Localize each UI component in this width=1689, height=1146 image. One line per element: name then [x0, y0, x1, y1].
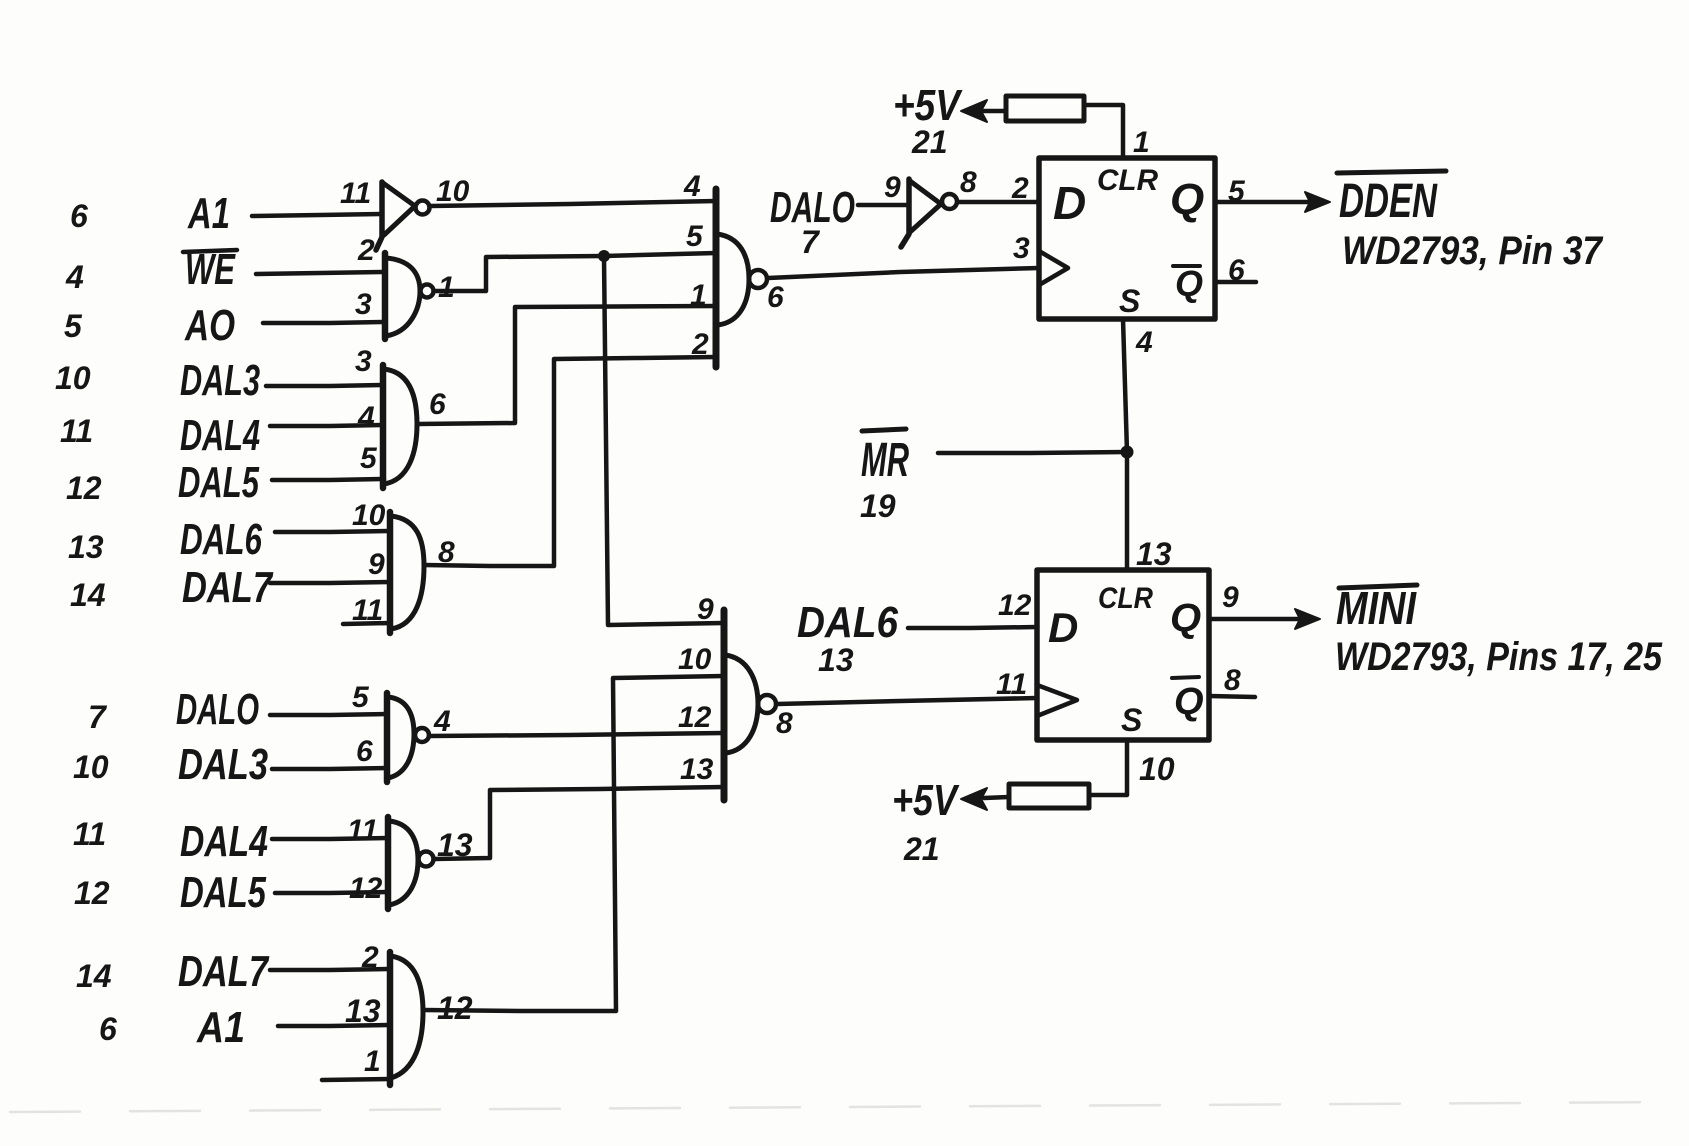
- svg-text:13: 13: [680, 753, 714, 786]
- wire DAL7 input to AND C pin 9: [270, 582, 390, 583]
- svg-text:5: 5: [64, 308, 83, 344]
- wire A1 input to inverter: [252, 214, 381, 216]
- wire DAL3 input to NAND D pin 6: [272, 768, 387, 769]
- svg-text:10: 10: [678, 643, 712, 676]
- inverter (A1, 7404 pin 11 to 10): [376, 182, 430, 250]
- arrowhead +5V upper: [961, 100, 987, 122]
- svg-text:Q: Q: [1175, 263, 1203, 304]
- svg-text:3: 3: [1013, 232, 1030, 265]
- svg-text:10: 10: [73, 749, 109, 785]
- overline DDEN: [1337, 171, 1446, 173]
- svg-text:9: 9: [884, 171, 901, 204]
- wire stub AND C pin 11: [343, 623, 390, 624]
- svg-text:13: 13: [68, 529, 104, 565]
- wire DAL7 input to AND F pin 2: [270, 969, 390, 970]
- svg-text:DAL5: DAL5: [180, 868, 266, 917]
- svg-text:6: 6: [429, 388, 446, 421]
- svg-text:11: 11: [347, 814, 378, 847]
- svg-text:1: 1: [1133, 126, 1150, 159]
- svg-text:DAL7: DAL7: [178, 947, 270, 996]
- svg-text:11: 11: [60, 413, 93, 449]
- svg-text:+5V: +5V: [892, 776, 960, 825]
- AND gate C (DAL6/DAL7, pins 10,9,11 out 8): [390, 512, 424, 633]
- svg-text:DAL3: DAL3: [180, 356, 260, 405]
- svg-text:6: 6: [70, 198, 88, 234]
- wire vertical from junction down to NAND U2 pin 9: [604, 257, 724, 625]
- svg-text:10: 10: [352, 499, 386, 532]
- svg-text:1: 1: [690, 279, 707, 312]
- svg-text:+5V: +5V: [893, 81, 963, 130]
- svg-text:2: 2: [1011, 172, 1029, 205]
- svg-text:9: 9: [697, 593, 714, 626]
- NAND gate E (DAL4/DAL5, pins 11,12 out 13): [388, 817, 434, 909]
- wire A1 input to AND F pin 13: [278, 1025, 390, 1026]
- svg-text:14: 14: [76, 958, 112, 994]
- wire DAL0 input to inverter 2 pin 9: [858, 203, 909, 208]
- svg-text:4: 4: [683, 170, 701, 203]
- svg-text:6: 6: [99, 1011, 117, 1047]
- wire stub AND F pin 1: [322, 1079, 390, 1080]
- svg-text:12: 12: [998, 589, 1032, 622]
- svg-text:2: 2: [357, 234, 375, 267]
- overline FF1 Qbar: [1173, 264, 1200, 268]
- svg-text:CLR: CLR: [1097, 164, 1158, 197]
- flip-flop FF2 (7474 lower) box: [1037, 570, 1209, 740]
- arrowhead MINI: [1295, 609, 1320, 629]
- svg-text:3: 3: [355, 288, 372, 321]
- svg-text:9: 9: [1222, 581, 1239, 614]
- svg-text:8: 8: [438, 536, 455, 569]
- AND gate B (DAL3/DAL4/DAL5, pins 3,4,5 out 6): [383, 365, 417, 488]
- svg-text:21: 21: [911, 124, 948, 160]
- wire NAND A output 1 to NAND U1 pin 5: [434, 253, 716, 291]
- svg-text:Q: Q: [1174, 681, 1204, 723]
- svg-text:DAL6: DAL6: [180, 515, 262, 564]
- svg-text:DAL6: DAL6: [797, 598, 898, 647]
- svg-text:Q: Q: [1170, 596, 1201, 640]
- resistor (pull-up to +5V, lower): [1009, 784, 1089, 808]
- svg-text:13: 13: [437, 827, 473, 863]
- wire FF2 Qbar pin 8 stub: [1209, 696, 1255, 697]
- arrowhead DDEN: [1305, 192, 1330, 212]
- wire resistor to +5V arrow lower: [984, 797, 1009, 798]
- wire DAL0 input to NAND D pin 5: [270, 714, 387, 715]
- wire AND B output 6 to NAND U1 pin 1: [417, 306, 716, 424]
- wire FF2 Q pin 9 to MINI: [1209, 617, 1302, 622]
- wire resistor to +5V arrow: [983, 109, 1006, 114]
- svg-text:WD2793, Pins 17, 25: WD2793, Pins 17, 25: [1335, 635, 1663, 679]
- wire DAL5 input to AND B pin 5: [272, 479, 384, 480]
- svg-text:14: 14: [70, 577, 106, 613]
- overline MR: [862, 429, 906, 431]
- svg-text:Q: Q: [1170, 175, 1204, 224]
- svg-text:11: 11: [340, 177, 371, 210]
- svg-text:A1: A1: [187, 189, 230, 238]
- wire NAND U1 output 6 to FF1 clock pin 3: [768, 268, 1039, 278]
- NAND gate D (DAL0/DAL3, pins 5,6 out 4): [387, 693, 429, 782]
- wire DAL5 input to NAND E pin 12: [275, 892, 388, 893]
- svg-text:S: S: [1121, 702, 1143, 738]
- wire FF1 S pin 4 down to junction: [1123, 319, 1127, 452]
- svg-text:13: 13: [345, 993, 381, 1029]
- svg-text:12: 12: [74, 875, 110, 911]
- svg-text:8: 8: [1224, 664, 1241, 697]
- svg-text:2: 2: [691, 328, 709, 361]
- wire FF2 S pin 10 down to resistor: [1089, 740, 1127, 795]
- wire WE input to NAND A pin 2: [256, 272, 385, 274]
- svg-text:3: 3: [355, 345, 372, 378]
- wire NAND D output 4 to NAND U2 pin 12: [429, 733, 724, 736]
- svg-text:11: 11: [352, 594, 383, 627]
- arrowhead +5V lower: [961, 788, 987, 810]
- wire DAL4 input to AND B pin 4: [270, 425, 383, 426]
- wire DAL3 input to AND B pin 3: [266, 385, 383, 386]
- svg-text:5: 5: [360, 442, 378, 475]
- wire junction down to FF2 CLR pin 13: [1125, 452, 1130, 570]
- svg-text:DAL3: DAL3: [178, 740, 268, 789]
- wire MR input: [938, 452, 1127, 453]
- svg-text:10: 10: [436, 175, 470, 208]
- wire FF1 Qbar pin 6 stub: [1215, 280, 1256, 285]
- svg-text:12: 12: [349, 872, 383, 905]
- svg-text:10: 10: [1139, 751, 1175, 787]
- svg-text:6: 6: [767, 281, 784, 314]
- svg-text:4: 4: [65, 259, 84, 295]
- faint scanner line bottom: [10, 1102, 1680, 1112]
- svg-text:7: 7: [88, 699, 108, 735]
- svg-text:11: 11: [996, 668, 1027, 701]
- svg-text:AO: AO: [184, 301, 235, 350]
- svg-text:13: 13: [818, 642, 854, 678]
- svg-text:5: 5: [686, 220, 704, 253]
- svg-text:DAL4: DAL4: [180, 411, 260, 460]
- NAND gate A (WE/A0, pins 2,3 out 1): [385, 253, 434, 339]
- junction node MR net: [1121, 446, 1134, 459]
- NAND gate U2 (4-input 7420, pins 9,10,12,13 out 8): [724, 610, 776, 800]
- svg-text:19: 19: [860, 488, 896, 524]
- wire DAL6 input to FF2 D pin 12: [908, 627, 1037, 628]
- wire inverter 2 output 8 to FF1 D pin 2: [958, 200, 1039, 205]
- wire DAL6 input to AND C pin 10: [275, 531, 390, 532]
- svg-text:WD2793, Pin 37: WD2793, Pin 37: [1342, 229, 1604, 273]
- svg-text:DDEN: DDEN: [1339, 175, 1438, 228]
- svg-text:11: 11: [73, 816, 106, 852]
- wire AND C output 8 to NAND U1 pin 2: [424, 357, 716, 566]
- svg-text:DAL7: DAL7: [182, 563, 274, 612]
- svg-text:12: 12: [437, 990, 473, 1026]
- svg-text:1: 1: [364, 1045, 381, 1078]
- svg-text:8: 8: [776, 707, 793, 740]
- resistor (pull-up to +5V, upper): [1006, 96, 1084, 121]
- wire FF1 CLR pin 1 to pull-up resistor: [1084, 105, 1123, 158]
- svg-text:MR: MR: [861, 434, 909, 487]
- wire DAL4 input to NAND E pin 11: [272, 838, 388, 839]
- svg-text:D: D: [1053, 177, 1086, 229]
- FF1 clock triangle: [1039, 251, 1068, 285]
- overline MINI: [1339, 585, 1417, 588]
- overline WE: [183, 250, 237, 252]
- svg-text:5: 5: [1228, 175, 1246, 208]
- svg-text:4: 4: [1135, 326, 1153, 359]
- svg-text:12: 12: [66, 470, 102, 506]
- svg-text:A1: A1: [196, 1003, 245, 1052]
- wire inverter output to NAND U1 pin 4: [430, 201, 716, 206]
- svg-text:DAL5: DAL5: [178, 458, 259, 507]
- svg-text:CLR: CLR: [1098, 582, 1153, 615]
- svg-text:DAL4: DAL4: [180, 817, 268, 866]
- svg-text:9: 9: [368, 548, 385, 581]
- wire A0 input to NAND A pin 3: [263, 322, 385, 323]
- inverter 2 (DAL0, 7404 pin 9 to 8): [901, 179, 957, 247]
- FF2 clock triangle: [1037, 685, 1077, 716]
- svg-text:12: 12: [678, 701, 712, 734]
- svg-text:8: 8: [960, 166, 977, 199]
- svg-text:6: 6: [1228, 254, 1245, 287]
- overline FF2 Qbar: [1172, 677, 1199, 678]
- svg-text:S: S: [1119, 283, 1141, 319]
- svg-text:2: 2: [361, 941, 379, 974]
- svg-text:5: 5: [352, 681, 370, 714]
- svg-text:6: 6: [356, 735, 373, 768]
- AND gate F (DAL7/A1, pins 2,13,1 out 12): [390, 952, 423, 1085]
- svg-text:1: 1: [438, 271, 455, 304]
- wire FF1 Q pin 5 to DDEN: [1215, 200, 1311, 205]
- junction node at NAND A output net: [598, 250, 610, 262]
- svg-text:13: 13: [1136, 536, 1172, 572]
- svg-text:21: 21: [903, 831, 940, 867]
- svg-text:7: 7: [801, 224, 821, 260]
- svg-text:D: D: [1048, 604, 1078, 651]
- svg-text:10: 10: [55, 360, 91, 396]
- flip-flop FF1 (7474 upper) box: [1039, 158, 1215, 319]
- wire NAND F output 12 up to NAND U2 pin 10: [423, 676, 724, 1011]
- svg-text:4: 4: [357, 401, 375, 434]
- svg-text:4: 4: [433, 705, 451, 738]
- NAND gate U1 (4-input 7420, pins 4,5,1,2 out 6): [716, 189, 767, 367]
- svg-text:DALO: DALO: [176, 685, 259, 734]
- wire NAND U2 output 8 to FF2 clock pin 11: [777, 698, 1037, 704]
- wire NAND E output 13 to NAND U2 pin 13: [434, 787, 724, 859]
